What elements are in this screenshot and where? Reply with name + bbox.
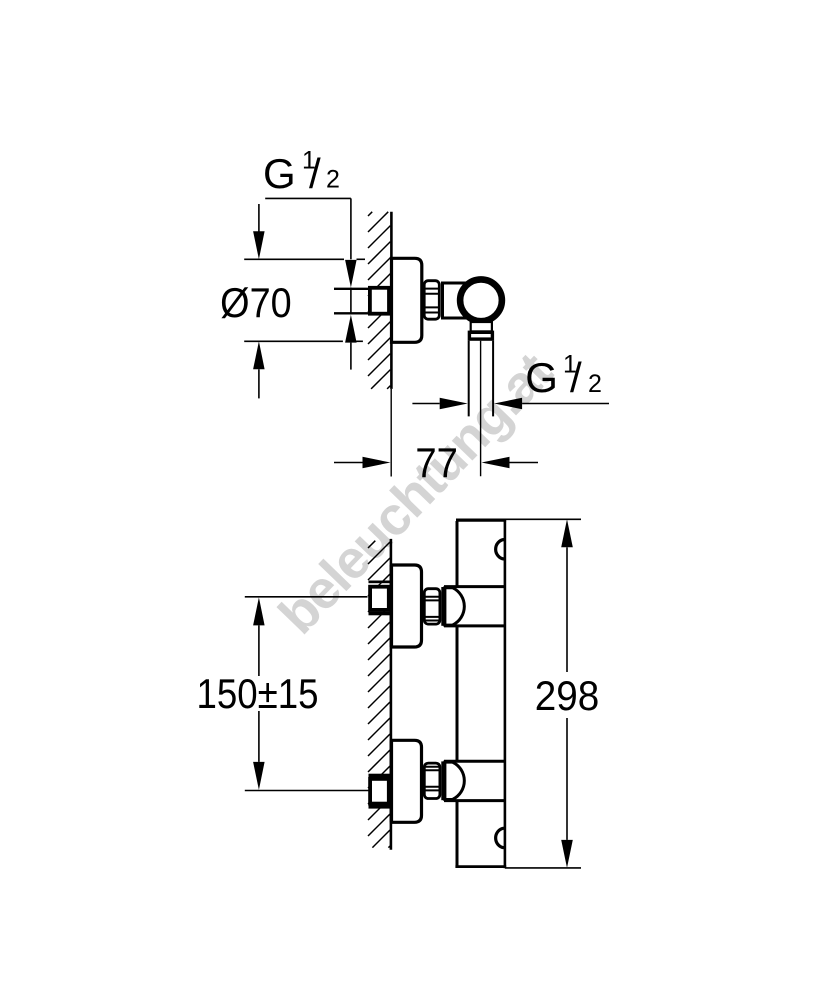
svg-text:150±15: 150±15 — [197, 670, 319, 717]
svg-text:Ø70: Ø70 — [220, 279, 292, 326]
svg-text:77: 77 — [415, 439, 458, 486]
dimension label G 1/2 (top) — [263, 147, 340, 198]
wall hatching (top view) — [368, 212, 390, 389]
lower S-union square behind wall — [369, 774, 392, 809]
dimension 77 line left part — [334, 457, 391, 468]
dimension O70 upper arrow — [253, 204, 265, 259]
svg-text:G: G — [263, 150, 296, 197]
O70 lower extension line — [244, 340, 363, 342]
wall surface line (bottom view) — [390, 539, 393, 850]
thermostat body outline — [455, 519, 506, 869]
supply pipe in wall (top view) — [334, 289, 369, 314]
lower inlet dome on body — [441, 761, 464, 800]
body parting lines at upper union — [444, 587, 505, 626]
upper inlet dome on body — [441, 587, 464, 626]
svg-text:/: / — [570, 354, 582, 401]
svg-text:2: 2 — [588, 370, 602, 398]
150 dim lower extension line — [245, 790, 369, 792]
body parting lines at lower union — [444, 761, 505, 800]
298 dim lower extension line — [505, 867, 581, 869]
outlet collar nut (top view) — [469, 332, 492, 339]
upper escutcheon (bottom view) — [392, 565, 422, 647]
hex connection nut (top view) — [423, 281, 440, 320]
outlet neck below valve (top view) — [471, 322, 492, 331]
square union nut behind wall (top view) — [370, 288, 389, 314]
wall hatching (bottom view) — [368, 541, 390, 848]
150 dim upper extension line — [245, 596, 368, 598]
svg-text:2: 2 — [326, 166, 340, 194]
dimension 150+-15 vertical with arrows — [253, 597, 265, 790]
lower hex nut (bottom view) — [423, 763, 440, 798]
dimension G1/2 of hose: left arrow — [412, 398, 467, 409]
svg-text:/: / — [309, 150, 321, 197]
svg-text:298: 298 — [535, 672, 600, 719]
dimension 298 vertical with arrows — [561, 519, 573, 868]
lower escutcheon (bottom view) — [392, 740, 422, 822]
svg-text:G: G — [525, 354, 558, 401]
dimension G1/2 vertical (top) with arrows at pipe — [345, 198, 357, 369]
wall line over upper escutcheon — [390, 565, 393, 647]
dimension G1/2 of hose: right arrow — [494, 398, 609, 409]
298 dim upper extension line — [505, 518, 581, 520]
shower hose (top view) — [469, 341, 493, 476]
watermark "beleuchtung.at" — [267, 341, 563, 645]
wall line over lower escutcheon — [390, 740, 393, 822]
dimension label G 1/2 (hose) — [525, 350, 602, 401]
upper hex nut (bottom view) — [423, 589, 440, 624]
shower valve circle (top view) — [460, 279, 502, 321]
G 1/2 leader line (top) — [265, 197, 351, 199]
dimension O70 lower arrow — [253, 341, 265, 398]
wall surface line (top view) — [390, 212, 393, 477]
upper S-union square behind wall — [369, 581, 392, 616]
upper fixing screw ellipse — [496, 540, 504, 560]
wall line over escutcheon joint (top view) — [390, 258, 393, 342]
dimension 77 line right part — [482, 457, 539, 468]
O70 upper extension line — [244, 258, 365, 260]
valve inlet body (top view) — [443, 283, 470, 318]
escutcheon flange (top view) — [392, 258, 422, 342]
lower fixing screw ellipse — [496, 828, 504, 848]
